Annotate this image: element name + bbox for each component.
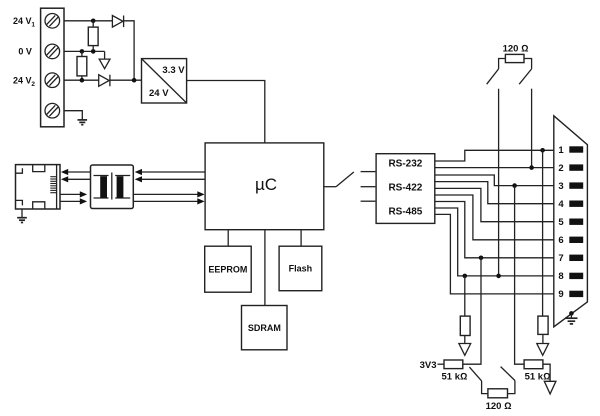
wire+arrow row2 transformer to µC xyxy=(135,176,205,182)
switch S2 blade left xyxy=(469,367,481,381)
svg-text:5: 5 xyxy=(558,217,564,228)
svg-text:1: 1 xyxy=(31,21,35,28)
resistor R2 xyxy=(77,51,87,80)
arrow down pin1 column xyxy=(537,344,549,356)
ground symbol RJ45 shield xyxy=(17,209,27,223)
arrow down pin8 column xyxy=(459,344,471,356)
svg-text:3.3 V: 3.3 V xyxy=(162,65,185,76)
svg-text:24 V: 24 V xyxy=(13,16,32,26)
switch S2 blade right xyxy=(501,367,515,381)
microcontroller U1 µC xyxy=(205,143,324,230)
resistor 51 kOhm left xyxy=(444,360,463,369)
svg-text:8: 8 xyxy=(558,271,563,282)
wire 120 Ohm right lead to blade xyxy=(508,381,515,394)
wire resistor to arrow (pin1 column) xyxy=(542,334,544,343)
diode D2 xyxy=(99,75,110,87)
pin 4 xyxy=(558,199,583,210)
screw terminal FE xyxy=(45,103,60,118)
wire RS to DB9 pin 1 xyxy=(435,150,554,161)
junction dot 24V2/R2 xyxy=(80,78,85,83)
junction dot pin3 column xyxy=(512,183,517,188)
screw terminal 24V1 xyxy=(45,13,60,28)
svg-text:51 kΩ: 51 kΩ xyxy=(442,371,468,382)
svg-text:SDRAM: SDRAM xyxy=(248,323,281,333)
wire+arrow row2 RJ45 side xyxy=(61,176,91,182)
switch S1 blade right xyxy=(519,69,531,84)
pin 1 xyxy=(558,145,583,156)
svg-text:120 Ω: 120 Ω xyxy=(486,401,512,412)
wire pin8 junction down to pull resistor xyxy=(464,276,466,316)
label 24 V1 xyxy=(13,16,35,28)
wire D2 cathode to converter xyxy=(110,79,142,81)
wire+arrow row4 transformer to µC xyxy=(133,198,204,204)
wire RS to DB9 pin 9 xyxy=(435,214,554,294)
wire D1 cathode to node D xyxy=(124,21,135,80)
svg-text:120 Ω: 120 Ω xyxy=(503,43,529,54)
diode D1 xyxy=(112,16,123,28)
wire+arrow row4 RJ45 to transformer xyxy=(60,198,87,204)
wire resistor to arrow (pin8 column) xyxy=(464,336,466,344)
wire terminal 4 to ground xyxy=(64,111,82,120)
resistor 51 kOhm right xyxy=(524,360,543,369)
DB9 connector X3 xyxy=(554,116,588,327)
wire 24V2 row xyxy=(64,79,99,81)
svg-text:RS-422: RS-422 xyxy=(388,183,422,194)
svg-text:9: 9 xyxy=(558,289,563,300)
svg-text:EEPROM: EEPROM xyxy=(208,264,247,274)
wire 24V1 row xyxy=(64,20,112,22)
arrow down 51k right xyxy=(544,381,556,394)
bus stub 1 xyxy=(361,171,376,173)
wire RS to DB9 pin 5 xyxy=(435,188,554,221)
pin 6 xyxy=(558,235,583,246)
pin 7 xyxy=(558,253,583,264)
wire RS to DB9 pin 2 xyxy=(435,167,554,169)
svg-text:6: 6 xyxy=(558,235,563,246)
junction dot 0V/R2 xyxy=(80,49,85,54)
memory EEPROM xyxy=(205,230,252,293)
resistor 120 Ohm top termination xyxy=(499,54,532,69)
wire µC serial bus with slash xyxy=(324,172,354,187)
junction dot pin1 column xyxy=(540,148,545,153)
wire+arrow row3 transformer to µC xyxy=(133,191,204,197)
wire pin7 junction down to 51k node xyxy=(463,258,481,364)
wire 3.3V to µC xyxy=(187,81,265,143)
switch S1 blade left xyxy=(487,69,499,84)
wire RS to DB9 pin 3 xyxy=(435,175,554,186)
screw terminal 0V xyxy=(45,44,60,59)
junction dot DB9 shell xyxy=(569,311,574,316)
wire+arrow row3 RJ45 to transformer xyxy=(60,191,87,197)
svg-text:1: 1 xyxy=(558,145,564,156)
junction dot pin8 column left xyxy=(463,274,468,279)
svg-text:3: 3 xyxy=(558,181,563,192)
wire RS to DB9 pin 8 xyxy=(435,208,554,276)
pin 8 xyxy=(558,271,583,282)
ground symbol DB9 shell xyxy=(565,313,577,324)
pin 5 xyxy=(558,217,583,228)
svg-text:RS-485: RS-485 xyxy=(388,207,422,218)
bus stub 2 xyxy=(361,186,376,188)
svg-text:µC: µC xyxy=(255,175,277,194)
svg-text:RS-232: RS-232 xyxy=(388,158,422,169)
svg-text:Flash: Flash xyxy=(289,264,313,274)
wire RS to DB9 pin 7 xyxy=(435,202,554,258)
wire+arrow row1 RJ45 side xyxy=(61,169,91,175)
ground symbol terminal block xyxy=(78,120,88,125)
wire 0V row xyxy=(64,50,105,52)
memory Flash xyxy=(279,230,322,291)
junction dot pin7 column xyxy=(479,255,484,260)
svg-text:0 V: 0 V xyxy=(18,47,32,57)
svg-text:24 V: 24 V xyxy=(13,75,32,85)
wire pin3 junction down to 51k right xyxy=(515,186,525,365)
terminal block X1 xyxy=(41,8,64,127)
svg-text:4: 4 xyxy=(558,199,564,210)
wire RS to DB9 pin 6 xyxy=(435,195,554,240)
junction dot 24V1/R1 xyxy=(91,19,96,24)
svg-text:7: 7 xyxy=(558,253,563,264)
resistor 120 Ohm bottom termination xyxy=(488,389,508,398)
junction dot 0V/R1 xyxy=(91,49,96,54)
svg-text:24 V: 24 V xyxy=(149,88,169,99)
RJ45 jack X2 xyxy=(16,165,61,209)
pull resistor on pin1 column xyxy=(538,316,548,334)
pin 3 xyxy=(558,181,583,192)
pull resistor on pin8 column xyxy=(460,316,470,335)
Ethernet transformer T1 xyxy=(91,165,134,209)
serial transceiver block RS-232/RS-422/RS-485 xyxy=(376,154,435,224)
wire pin1 junction down to pull resistor xyxy=(542,150,544,316)
junction dot pin2 column xyxy=(529,165,534,170)
junction dot pin8 column right xyxy=(496,274,501,279)
svg-text:2: 2 xyxy=(558,163,563,174)
label 24 V2 xyxy=(13,75,35,87)
arrow internal ground from 0V xyxy=(99,51,110,68)
resistor R1 xyxy=(88,21,98,52)
wire+arrow row1 transformer to µC xyxy=(135,169,205,175)
junction dot diode outputs node D xyxy=(132,78,137,83)
DC/DC converter 24V to 3.3V xyxy=(142,59,187,103)
wire switch right leg to pin2 junction xyxy=(531,89,533,168)
svg-text:3V3: 3V3 xyxy=(420,360,437,371)
wire 51k right to arrow xyxy=(543,364,550,381)
wire 3V3 to 51k resistor xyxy=(438,363,445,365)
bus stub 3 xyxy=(361,200,376,202)
wire RS to DB9 pin 4 xyxy=(435,182,554,204)
pin 2 xyxy=(558,163,583,174)
wire blade to 120 Ohm left lead xyxy=(482,381,488,394)
wire switch left leg to pin8 junction xyxy=(498,89,500,276)
pin 9 xyxy=(558,289,583,300)
screw terminal 24V2 xyxy=(45,73,60,88)
svg-text:2: 2 xyxy=(31,81,35,88)
memory SDRAM xyxy=(242,230,288,350)
